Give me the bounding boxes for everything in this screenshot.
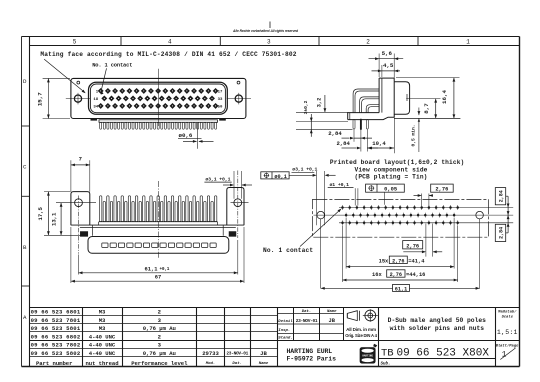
svg-text:Mating face according to MIL-C: Mating face according to MIL-C-24308 / D… (40, 51, 296, 58)
svg-text:4-40 UNC: 4-40 UNC (89, 333, 116, 340)
svg-text:Dat.: Dat. (302, 310, 312, 314)
svg-text:5: 5 (73, 38, 77, 45)
svg-text:No. 1 contact: No. 1 contact (263, 247, 313, 254)
svg-text:=44,16: =44,16 (406, 272, 425, 278)
svg-text:17,5: 17,5 (37, 206, 44, 220)
svg-text:15x: 15x (379, 258, 389, 264)
svg-text:M3: M3 (99, 325, 106, 332)
svg-text:A: A (23, 314, 27, 321)
svg-text:2,84: 2,84 (498, 227, 504, 239)
svg-text:17: 17 (218, 91, 223, 95)
svg-text:with solder pins and nuts: with solder pins and nuts (390, 325, 485, 332)
svg-text:+0,1: +0,1 (160, 267, 170, 272)
svg-text:5,6: 5,6 (382, 50, 393, 57)
svg-text:Alle Rechte vorbehalten! All r: Alle Rechte vorbehalten! All rights rese… (232, 29, 299, 33)
svg-text:HARTING EURL: HARTING EURL (287, 348, 333, 355)
svg-text:F-95972 Paris: F-95972 Paris (287, 355, 337, 362)
svg-text:nut thread: nut thread (85, 360, 118, 367)
svg-text:3: 3 (267, 38, 271, 45)
svg-text:09 66 523 7802: 09 66 523 7802 (31, 342, 81, 349)
svg-text:M3: M3 (99, 317, 106, 324)
svg-text:View component side: View component side (354, 166, 427, 173)
svg-text:0,5 min.: 0,5 min. (411, 124, 417, 146)
svg-text:M3: M3 (99, 309, 106, 316)
svg-text:All Dim. in mm: All Dim. in mm (346, 327, 376, 332)
svg-text:2,76: 2,76 (406, 243, 419, 249)
svg-text:No. 1 contact: No. 1 contact (92, 63, 132, 69)
svg-text:Maßstab/: Maßstab/ (497, 310, 517, 315)
svg-text:2,84: 2,84 (498, 190, 504, 202)
svg-text:JB: JB (329, 318, 336, 324)
svg-text:Part number: Part number (36, 360, 72, 367)
svg-text:4: 4 (168, 38, 172, 45)
svg-text:67: 67 (155, 275, 161, 281)
svg-text:23-NOV-01: 23-NOV-01 (226, 351, 248, 357)
svg-text:0,76 μm Au: 0,76 μm Au (143, 325, 176, 332)
svg-text:0,76 μm Au: 0,76 μm Au (143, 350, 176, 357)
svg-text:Sub.: Sub. (381, 362, 391, 367)
svg-text:Name: Name (327, 310, 337, 314)
svg-text:2,84: 2,84 (336, 140, 350, 147)
svg-text:16,4: 16,4 (441, 90, 448, 104)
svg-text:15,7: 15,7 (37, 92, 44, 106)
svg-text:2,76: 2,76 (392, 258, 404, 264)
svg-text:0,05: 0,05 (384, 187, 397, 193)
svg-text:D: D (23, 78, 27, 85)
svg-text:16x: 16x (372, 272, 382, 278)
svg-text:50: 50 (218, 106, 223, 110)
svg-text:2,84: 2,84 (328, 130, 342, 137)
svg-text:10,4: 10,4 (372, 140, 386, 147)
svg-text:2,76: 2,76 (435, 187, 448, 193)
svg-text:ø3,1 +0,1: ø3,1 +0,1 (205, 176, 230, 182)
svg-text:D-Sub male angled 50 poles: D-Sub male angled 50 poles (388, 317, 486, 324)
svg-text:09 66 523 7801: 09 66 523 7801 (31, 317, 81, 324)
svg-text:Scale: Scale (502, 315, 514, 320)
svg-text:4-40 UNC: 4-40 UNC (89, 342, 116, 349)
svg-text:=41,4: =41,4 (408, 258, 425, 264)
svg-text:C: C (23, 164, 27, 171)
svg-text:34: 34 (93, 106, 98, 110)
svg-text:HARTING: HARTING (362, 355, 373, 358)
svg-text:13,1: 13,1 (50, 212, 57, 226)
svg-text:09 66 523 X80X: 09 66 523 X80X (397, 348, 490, 360)
svg-text:ø3,1 +0,1: ø3,1 +0,1 (292, 167, 317, 173)
svg-text:7: 7 (79, 156, 82, 163)
svg-text:33: 33 (218, 98, 223, 102)
svg-text:Dat.: Dat. (232, 362, 242, 366)
svg-text:4,5: 4,5 (383, 62, 394, 69)
svg-text:1,5:1: 1,5:1 (497, 329, 518, 336)
svg-text:Insp.: Insp. (278, 329, 290, 333)
svg-text:Name: Name (259, 362, 269, 366)
svg-text:09 66 523 5801: 09 66 523 5801 (31, 325, 81, 332)
svg-text:09 66 523 6802: 09 66 523 6802 (31, 333, 81, 340)
svg-text:8,7: 8,7 (423, 103, 430, 114)
svg-text:23-NOV-01: 23-NOV-01 (296, 318, 318, 324)
svg-text:(PCB plating = Tin): (PCB plating = Tin) (354, 173, 427, 180)
svg-text:Performance level: Performance level (131, 360, 188, 367)
svg-text:4-40 UNC: 4-40 UNC (89, 350, 116, 357)
svg-text:Orig. Size DIN A 4: Orig. Size DIN A 4 (345, 333, 377, 338)
svg-text:2: 2 (366, 38, 370, 45)
svg-text:29733: 29733 (202, 350, 219, 357)
svg-text:JB: JB (260, 350, 267, 357)
svg-text:61,1: 61,1 (395, 286, 407, 292)
svg-text:TB: TB (381, 347, 394, 359)
svg-text:Detail.: Detail. (278, 319, 295, 324)
svg-text:B: B (23, 244, 27, 251)
svg-text:18: 18 (93, 98, 98, 102)
svg-text:09 66 523 6801: 09 66 523 6801 (31, 309, 81, 316)
svg-text:Mod.: Mod. (205, 361, 216, 366)
svg-text:09 66 523 5802: 09 66 523 5802 (31, 350, 81, 357)
svg-text:3,2: 3,2 (316, 98, 322, 108)
svg-text:Blatt/Page: Blatt/Page (496, 343, 520, 348)
svg-text:2,76: 2,76 (390, 272, 402, 278)
svg-text:Printed board layout(1,6±0,2 t: Printed board layout(1,6±0,2 thick) (330, 159, 465, 166)
svg-text:61,1: 61,1 (145, 266, 158, 272)
svg-text:1: 1 (466, 38, 470, 45)
svg-text:Stand.: Stand. (278, 336, 292, 341)
svg-text:ø0,1: ø0,1 (274, 174, 286, 180)
